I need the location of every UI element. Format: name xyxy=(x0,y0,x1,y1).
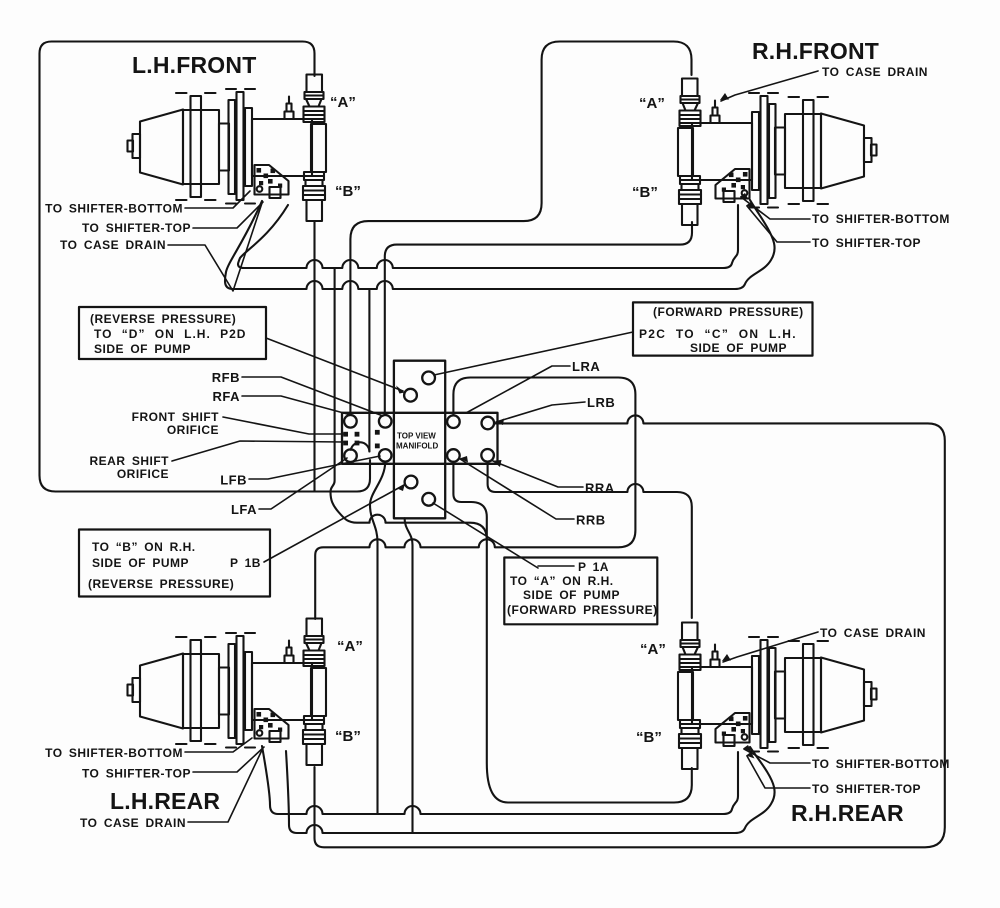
svg-text:“A”: “A” xyxy=(330,94,356,111)
port RFA xyxy=(344,415,357,428)
wire: L.H. REAR "B" hose, outer bottom loop to manifold port LRB xyxy=(315,415,945,847)
wire: front shifter-bottom line (L.H. to R.H.) xyxy=(225,200,775,289)
wire: L.H. FRONT "B" hose drop xyxy=(313,221,315,490)
manifold horizontal plate xyxy=(342,413,498,464)
svg-text:RRB: RRB xyxy=(576,513,606,528)
wire: R.H. FRONT "A" hose to manifold port RFA xyxy=(350,42,691,414)
svg-text:“B”: “B” xyxy=(335,728,361,745)
motor R.H. FRONT (mirrored) xyxy=(678,79,877,226)
front / rear shift orifice dots xyxy=(343,430,379,448)
wire: port RRA to R.H. REAR "B" fitting xyxy=(453,462,691,803)
leader RRA xyxy=(493,461,583,487)
manifold vertical plate (top view) xyxy=(394,361,445,519)
port RFB xyxy=(379,415,392,428)
leader P1A port to box xyxy=(433,503,574,568)
svg-text:“B”: “B” xyxy=(632,184,658,201)
wire: rear shifter-bottom line (L.H. to R.H.) xyxy=(286,747,775,833)
leader TO SHIFTER-BOTTOM (L.H. FRONT) xyxy=(185,191,250,208)
svg-text:RRA: RRA xyxy=(585,481,615,496)
leader TO CASE DRAIN (L.H. REAR) xyxy=(188,750,262,822)
svg-text:R.H.FRONT: R.H.FRONT xyxy=(752,38,879,64)
leader TO SHIFTER-BOTTOM (R.H. FRONT) xyxy=(741,197,810,219)
arrowhead shifter-bottom R.H. FRONT xyxy=(740,193,749,200)
wire: port RRB to R.H. REAR "A" fitting xyxy=(488,462,692,618)
port P2C xyxy=(422,372,435,385)
svg-text:TOP VIEW: TOP VIEW xyxy=(397,432,436,441)
svg-text:MANIFOLD: MANIFOLD xyxy=(396,442,438,451)
svg-text:TO SHIFTER-BOTTOM: TO SHIFTER-BOTTOM xyxy=(812,757,950,771)
leader LRB xyxy=(496,402,585,422)
port P2D xyxy=(404,389,417,402)
label box TO B ON R.H. SIDE OF PUMP P1B (REVERSE PRESSURE) xyxy=(79,530,270,597)
svg-text:TO “D” ON L.H. P2D: TO “D” ON L.H. P2D xyxy=(94,327,246,341)
port LFA xyxy=(344,449,357,462)
arrowhead at port RRA (leader) xyxy=(493,460,502,467)
svg-text:TO SHIFTER-TOP: TO SHIFTER-TOP xyxy=(82,767,191,781)
svg-text:TO CASE DRAIN: TO CASE DRAIN xyxy=(60,238,166,252)
port P1B xyxy=(405,476,418,489)
arrowhead at port P2D xyxy=(396,386,405,394)
leader FRONT SHIFT ORIFICE xyxy=(223,417,343,434)
label box (REVERSE PRESSURE) TO D ON L.H. P2D SIDE OF PUMP xyxy=(79,307,266,359)
arrowhead shifter-top R.H. REAR xyxy=(746,752,755,759)
leader TO SHIFTER-BOTTOM (L.H. REAR) xyxy=(185,738,252,752)
svg-text:LRB: LRB xyxy=(587,395,615,410)
svg-text:RFB: RFB xyxy=(212,370,240,385)
svg-text:P 1B: P 1B xyxy=(230,556,261,570)
svg-text:“A”: “A” xyxy=(337,638,363,655)
port LRB xyxy=(482,417,495,430)
svg-text:TO SHIFTER-TOP: TO SHIFTER-TOP xyxy=(82,221,191,235)
svg-text:SIDE OF PUMP: SIDE OF PUMP xyxy=(523,588,620,602)
arrowhead at port RRB (leader) xyxy=(460,456,469,463)
wire: hook into port LFA xyxy=(351,442,370,451)
arrowhead at port P1B xyxy=(397,484,405,491)
leader TO SHIFTER-TOP (L.H. FRONT) xyxy=(193,202,263,228)
svg-text:SIDE OF PUMP: SIDE OF PUMP xyxy=(94,342,191,356)
wire: front shifter-top line (L.H. to R.H.) xyxy=(238,205,738,268)
leader RFB xyxy=(242,377,383,416)
leader P1B box to port xyxy=(264,485,404,562)
wire: LFA hook feed through manifold xyxy=(368,289,370,452)
port LRA xyxy=(447,415,460,428)
svg-text:TO CASE DRAIN: TO CASE DRAIN xyxy=(80,816,186,830)
svg-text:SIDE OF PUMP: SIDE OF PUMP xyxy=(690,341,787,355)
leader TO SHIFTER-TOP (L.H. REAR) xyxy=(193,747,264,772)
label box (FORWARD PRESSURE) P2C TO C ON L.H. SIDE OF PUMP xyxy=(633,302,813,355)
wire: port LFB drop to rear shifter line xyxy=(370,462,385,813)
svg-text:(FORWARD PRESSURE): (FORWARD PRESSURE) xyxy=(653,305,804,319)
leader RFA xyxy=(242,396,351,415)
arrowhead at port LRB xyxy=(496,419,505,426)
leader TO SHIFTER-TOP (R.H. FRONT) xyxy=(747,206,810,242)
port RRB xyxy=(481,449,494,462)
svg-text:LFA: LFA xyxy=(231,502,257,517)
wire: R.H. FRONT "B" hose to manifold port RFB xyxy=(385,222,692,414)
svg-text:L.H.FRONT: L.H.FRONT xyxy=(132,52,256,78)
svg-text:TO SHIFTER-BOTTOM: TO SHIFTER-BOTTOM xyxy=(45,746,183,760)
arrowhead case drain R.H. FRONT xyxy=(720,93,729,100)
motor L.H. REAR xyxy=(128,619,327,766)
wire: drop from front shifter-top line down left of manifold xyxy=(331,268,487,540)
leader TO CASE DRAIN (L.H. FRONT) xyxy=(168,203,262,291)
svg-text:TO SHIFTER-BOTTOM: TO SHIFTER-BOTTOM xyxy=(812,212,950,226)
svg-text:TO SHIFTER-BOTTOM: TO SHIFTER-BOTTOM xyxy=(45,202,183,216)
svg-text:ORIFICE: ORIFICE xyxy=(117,467,169,481)
svg-text:(FORWARD PRESSURE): (FORWARD PRESSURE) xyxy=(507,603,658,617)
leader P2C port to box xyxy=(434,332,633,375)
svg-text:LFB: LFB xyxy=(220,473,247,488)
svg-text:P 1A: P 1A xyxy=(578,560,609,574)
wire: rear shifter-top line (L.H. to R.H.) xyxy=(262,746,738,814)
svg-text:P2C TO “C” ON L.H.: P2C TO “C” ON L.H. xyxy=(639,327,797,341)
arrowhead shifter-top R.H. FRONT xyxy=(746,202,755,209)
leader LFB xyxy=(249,456,380,479)
svg-text:(REVERSE PRESSURE): (REVERSE PRESSURE) xyxy=(88,577,234,591)
leader P2D box to port xyxy=(266,338,403,391)
leader LRA xyxy=(466,366,570,413)
port RRA xyxy=(447,449,460,462)
svg-text:ORIFICE: ORIFICE xyxy=(167,423,219,437)
arrowhead case drain R.H. REAR xyxy=(722,654,731,661)
svg-text:TO SHIFTER-TOP: TO SHIFTER-TOP xyxy=(812,782,921,796)
svg-text:SIDE OF PUMP: SIDE OF PUMP xyxy=(92,556,189,570)
svg-text:REAR SHIFT: REAR SHIFT xyxy=(90,454,170,468)
svg-text:LRA: LRA xyxy=(572,359,600,374)
svg-text:TO SHIFTER-TOP: TO SHIFTER-TOP xyxy=(812,236,921,250)
motor L.H. FRONT xyxy=(128,75,327,222)
svg-text:L.H.REAR: L.H.REAR xyxy=(110,788,220,814)
port LFB xyxy=(379,449,392,462)
svg-text:“A”: “A” xyxy=(639,95,665,112)
leader TO SHIFTER-BOTTOM (R.H. REAR) xyxy=(744,749,810,763)
svg-text:TO “A” ON R.H.: TO “A” ON R.H. xyxy=(510,574,614,588)
svg-text:TO CASE DRAIN: TO CASE DRAIN xyxy=(820,626,926,640)
label box P1A TO A ON R.H. SIDE OF PUMP (FORWARD PRESSURE) xyxy=(504,558,657,625)
svg-text:TO “B” ON R.H.: TO “B” ON R.H. xyxy=(92,540,196,554)
port P1A xyxy=(422,493,435,506)
svg-text:“A”: “A” xyxy=(640,641,666,658)
svg-text:FRONT SHIFT: FRONT SHIFT xyxy=(132,410,219,424)
leader TO CASE DRAIN (R.H. REAR) xyxy=(723,632,818,662)
svg-text:RFA: RFA xyxy=(213,389,241,404)
wire: manifold bottom stub drop xyxy=(405,518,413,832)
wire: L.H. REAR "A" hose to manifold port LRA xyxy=(315,378,635,620)
svg-text:“B”: “B” xyxy=(335,183,361,200)
arrowhead shifter-bottom R.H. REAR xyxy=(743,745,752,752)
motor R.H. REAR (mirrored) xyxy=(678,623,877,770)
leader TO CASE DRAIN (R.H. FRONT) xyxy=(721,71,818,101)
wire: L.H. FRONT "A" hose, big left loop down to manifold port LFA xyxy=(40,42,371,492)
leader REAR SHIFT ORIFICE xyxy=(172,441,344,461)
svg-text:R.H.REAR: R.H.REAR xyxy=(791,800,904,826)
svg-text:(REVERSE PRESSURE): (REVERSE PRESSURE) xyxy=(90,312,236,326)
leader LFA xyxy=(259,458,347,509)
leader TO SHIFTER-TOP (R.H. REAR) xyxy=(747,756,810,788)
leader RRB xyxy=(460,459,574,519)
svg-text:TO CASE DRAIN: TO CASE DRAIN xyxy=(822,65,928,79)
svg-text:“B”: “B” xyxy=(636,729,662,746)
